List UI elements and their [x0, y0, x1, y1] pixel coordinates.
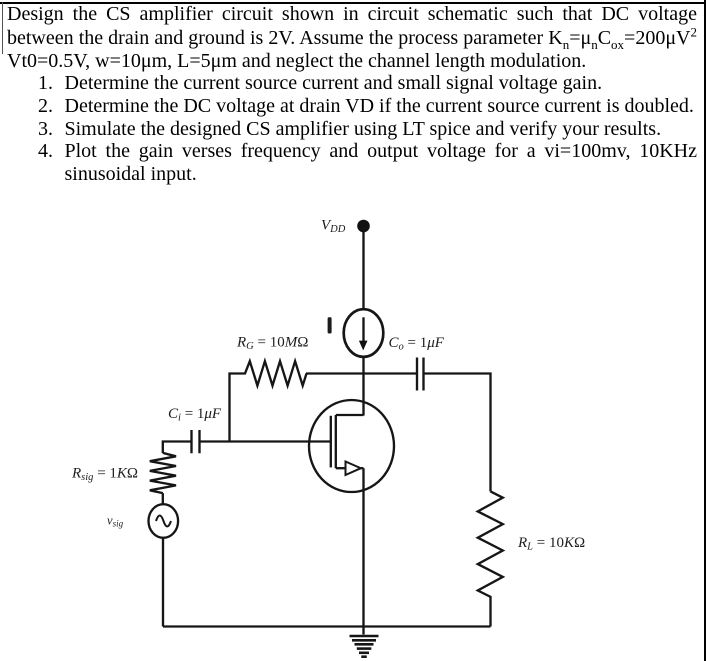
svg-text:Ci = 1μF: Ci = 1μF [168, 406, 222, 424]
svg-text:Co = 1μF: Co = 1μF [389, 335, 445, 353]
wire current source to drain node [362, 356, 364, 415]
capacitor Ci [192, 430, 200, 453]
capacitor Co [417, 358, 424, 391]
node VDD terminal dot [357, 220, 370, 233]
wire vsig to bottom rail [162, 538, 164, 627]
current source I (circle with down arrow) [344, 309, 384, 357]
transistor gate bar [330, 416, 332, 468]
resistor Rsig [150, 453, 176, 493]
ground [362, 627, 364, 635]
svg-text:RG = 10MΩ: RG = 10MΩ [236, 335, 308, 353]
wire VDD to current source [362, 228, 364, 311]
transistor source connection with arrow [336, 467, 346, 469]
transistor drain connection [336, 414, 364, 416]
wire bottom rail [163, 625, 491, 627]
resistor RG [230, 361, 307, 441]
frame left partial border [2, 2, 3, 54]
resistor RL [478, 491, 503, 626]
svg-text:Rsig = 1KΩ: Rsig = 1KΩ [71, 466, 138, 484]
svg-text:vsig: vsig [107, 514, 124, 529]
transistor Q1 NMOS circle [309, 400, 394, 492]
frame top border [0, 2, 706, 4]
wire output bus left (drain node) [306, 372, 417, 374]
wire gate (Ci to transistor gate) [201, 440, 331, 442]
wire Co to RL corner [424, 374, 491, 492]
frame right border [704, 0, 706, 661]
wire Ci left corner down to Rsig [163, 442, 191, 454]
transistor channel bar [335, 415, 337, 468]
wire Rsig to vsig [162, 493, 164, 504]
source vsig (sine source circle) [149, 504, 179, 538]
svg-text:VDD: VDD [321, 218, 346, 236]
wire source to bottom rail [362, 468, 364, 626]
svg-text:RL = 10KΩ: RL = 10KΩ [517, 535, 585, 553]
label I [328, 317, 332, 333]
